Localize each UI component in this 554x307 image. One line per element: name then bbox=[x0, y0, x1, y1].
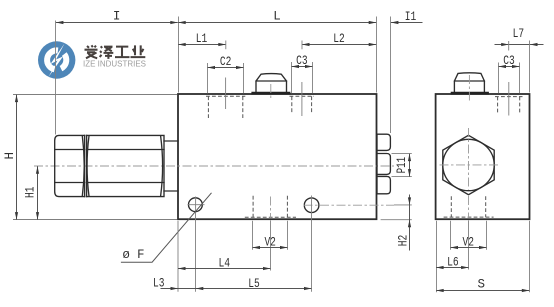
svg-text:P11: P11 bbox=[395, 157, 409, 174]
top plug main view bbox=[251, 74, 290, 94]
right view hex nut bbox=[443, 135, 494, 194]
hole 1 (oF) bbox=[189, 198, 203, 212]
dimension P11 bbox=[392, 154, 412, 177]
extension line I1 right bbox=[390, 17, 392, 134]
top plug centerline bbox=[270, 84, 272, 101]
extension line I left bbox=[55, 21, 57, 135]
svg-text:V2: V2 bbox=[264, 235, 276, 249]
svg-text:H2: H2 bbox=[397, 235, 411, 247]
svg-text:L7: L7 bbox=[513, 27, 525, 41]
svg-text:L6: L6 bbox=[447, 255, 459, 269]
dimension C3 main bbox=[292, 54, 313, 93]
dimension I bbox=[56, 9, 178, 24]
ext below right body bbox=[436, 221, 438, 292]
svg-text:L: L bbox=[273, 9, 281, 23]
svg-text:C2: C2 bbox=[220, 55, 232, 69]
svg-text:L5: L5 bbox=[248, 277, 260, 291]
dimension C3 right bbox=[499, 54, 520, 93]
svg-text:I: I bbox=[113, 9, 121, 23]
axis centerline main view bbox=[34, 165, 394, 167]
C3 right port centerline bbox=[508, 82, 510, 116]
V2 main port centerline bbox=[270, 197, 272, 219]
cartridge hex nut 1 bbox=[55, 135, 85, 196]
hidden port V2 right bbox=[444, 196, 494, 217]
dimension I1 bbox=[391, 10, 423, 24]
dimension L4 bbox=[178, 256, 271, 270]
dimension V2 main bbox=[253, 235, 288, 249]
hole 2 centerlines bbox=[304, 204, 395, 206]
svg-text:L1: L1 bbox=[196, 32, 208, 46]
right view hex centerlines bbox=[440, 128, 499, 190]
logo chinese text strokes bbox=[85, 45, 146, 59]
dimension L7 bbox=[495, 27, 544, 93]
neck bbox=[164, 141, 178, 191]
right plug centerline bbox=[468, 75, 470, 103]
hole 2 bbox=[304, 198, 319, 213]
svg-text:C3: C3 bbox=[503, 54, 515, 68]
dimension H bbox=[3, 95, 177, 220]
svg-text:S: S bbox=[478, 278, 486, 292]
dimension L6 bbox=[436, 255, 469, 269]
hidden port C2 bbox=[206, 96, 245, 118]
logo IZE circle bbox=[38, 41, 75, 78]
right view top plug bbox=[451, 73, 489, 93]
dimension L1 bbox=[178, 32, 226, 49]
hidden port V2 main bbox=[245, 196, 296, 218]
svg-text:L4: L4 bbox=[218, 256, 230, 270]
hex junction bbox=[85, 135, 87, 196]
svg-text:H1: H1 bbox=[23, 187, 37, 199]
dimension C2 bbox=[208, 55, 244, 93]
right view nut circle bbox=[443, 139, 494, 190]
dimension H1 bbox=[23, 166, 39, 219]
svg-text:C3: C3 bbox=[296, 54, 308, 68]
main body bbox=[178, 94, 377, 219]
extension line body right top bbox=[376, 17, 378, 93]
svg-text:L3: L3 bbox=[153, 277, 165, 291]
C3 main port centerline bbox=[301, 82, 303, 116]
right view body bbox=[436, 94, 530, 219]
dimension S bbox=[436, 278, 529, 293]
dimension H2 bbox=[381, 195, 412, 251]
dimension L3 and L5 bbox=[153, 277, 311, 291]
dimension L2 bbox=[302, 32, 376, 49]
svg-text:V2: V2 bbox=[463, 235, 475, 249]
svg-text:H: H bbox=[3, 152, 17, 160]
dimension V2 right bbox=[451, 235, 487, 249]
svg-text:L2: L2 bbox=[333, 32, 345, 46]
svg-text:ø F: ø F bbox=[123, 248, 145, 262]
extension line body left top bbox=[178, 17, 180, 93]
V2 right port centerline bbox=[468, 196, 470, 218]
hole 1 centerlines bbox=[188, 197, 205, 214]
svg-text:I1: I1 bbox=[405, 10, 417, 24]
dimension L bbox=[178, 9, 376, 24]
ext below main body bbox=[177, 221, 179, 292]
hidden port C3 right bbox=[495, 97, 523, 114]
cartridge hex nut 2 bbox=[87, 135, 164, 196]
oF leader bbox=[121, 193, 212, 262]
C2 port centerline bbox=[225, 78, 227, 110]
hidden port C3 main bbox=[290, 96, 315, 114]
svg-text:IZE INDUSTRIES: IZE INDUSTRIES bbox=[83, 60, 146, 69]
side plug P1 bbox=[377, 134, 390, 194]
